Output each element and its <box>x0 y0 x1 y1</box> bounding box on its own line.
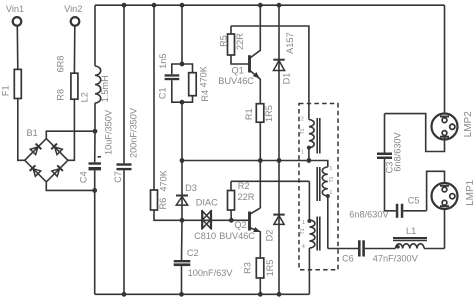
svg-text:R8: R8 <box>55 89 65 101</box>
diode D1 A157 <box>273 3 295 161</box>
svg-text:100nF/63V: 100nF/63V <box>188 268 234 278</box>
svg-text:D1: D1 <box>281 73 291 85</box>
svg-text:6n8/630V: 6n8/630V <box>393 131 403 171</box>
inductor L2 1.5mH <box>80 5 110 131</box>
svg-text:1.5mH: 1.5mH <box>100 75 110 102</box>
svg-text:T1: T1 <box>300 228 306 234</box>
svg-text:1: 1 <box>330 190 333 196</box>
svg-text:C5: C5 <box>408 195 420 205</box>
wire rail to LMP2 <box>444 5 446 116</box>
wire R8 to bridge right (crosses DC+ wire) <box>68 99 75 160</box>
svg-text:1: 1 <box>302 220 305 226</box>
resistor R2 22R <box>228 181 255 220</box>
svg-text:L1: L1 <box>406 226 416 236</box>
resistor R1 1R5 <box>244 104 274 161</box>
svg-text:R1: R1 <box>244 108 254 120</box>
svg-text:LMP1: LMP1 <box>465 179 474 206</box>
lamp LMP2 <box>432 111 474 140</box>
svg-text:6n8/630V: 6n8/630V <box>349 210 389 220</box>
svg-text:B1: B1 <box>27 128 38 138</box>
capacitor C1 1n5 <box>157 54 182 103</box>
svg-text:R6: R6 <box>158 198 168 210</box>
svg-text:BUV46C: BUV46C <box>219 231 255 241</box>
svg-text:1n5: 1n5 <box>158 54 168 69</box>
svg-text:22R: 22R <box>235 33 245 50</box>
svg-text:1R5: 1R5 <box>264 105 274 122</box>
fuse F1 <box>1 69 22 98</box>
capacitor C7 200nF/350V <box>113 3 139 297</box>
node D3/C2/DIAC junction <box>180 218 185 223</box>
resistor R5 22R <box>218 26 245 55</box>
wire Vin2 to R8 <box>73 26 75 73</box>
diac C810 <box>194 198 218 242</box>
wire C5 to LMP1 top <box>427 171 445 211</box>
transistor Q1 BUV46C <box>218 5 261 104</box>
transformer T1 winding 2 (middle) <box>309 161 335 249</box>
node L2/C4 junction <box>93 129 98 134</box>
node Q1 collector at rail <box>258 3 263 8</box>
capacitor C6 47nF/300V <box>328 240 419 263</box>
wire R5 top to T1 winding 1 <box>231 26 309 120</box>
node R2/DIAC/Q2 <box>229 218 234 223</box>
lamp LMP1 <box>432 179 474 209</box>
diode D3 <box>176 161 197 221</box>
node D1 bottom <box>277 158 282 163</box>
svg-text:LMP2: LMP2 <box>463 111 474 138</box>
transformer T1 core bars <box>317 118 320 251</box>
resistor R3 1R5 <box>242 258 275 297</box>
transformer T1 winding 1 (top) <box>300 117 314 161</box>
wire bottom rail <box>95 293 310 295</box>
svg-text:C6: C6 <box>342 253 354 263</box>
node C1/R4 bottom <box>180 100 185 105</box>
terminal Vin1 <box>6 4 24 26</box>
svg-text:R5: R5 <box>218 35 228 47</box>
wire rail to R6 <box>152 3 157 190</box>
diode D2 <box>264 161 284 297</box>
svg-text:T1: T1 <box>300 128 306 134</box>
svg-text:BUV46C: BUV46C <box>218 76 254 86</box>
svg-text:22R: 22R <box>238 192 255 202</box>
svg-text:Q1: Q1 <box>232 66 244 76</box>
resistor R6 470K <box>151 169 169 210</box>
svg-text:6R8: 6R8 <box>55 56 65 73</box>
capacitor C5 6n8/630V <box>349 195 426 219</box>
inductor L1 <box>393 226 445 249</box>
svg-text:2: 2 <box>301 117 304 123</box>
svg-text:R4: R4 <box>200 90 210 102</box>
wire LMP2 bottom jog <box>385 114 445 152</box>
resistor R4 470K <box>182 64 210 102</box>
wire C1/R4 to D3 node <box>181 102 183 160</box>
node T1 junction <box>307 158 312 163</box>
wire R5 bottom to Q1 base <box>231 55 248 64</box>
svg-text:1: 1 <box>330 166 333 172</box>
wire R2 top to T1 winding 3 <box>231 180 309 182</box>
wire bridge minus to C4 node <box>46 182 94 191</box>
wire R1 node down to Q2 collector <box>259 161 261 209</box>
node D3 top <box>180 158 185 163</box>
svg-text:L2: L2 <box>80 92 90 102</box>
node R1 bottom <box>258 158 263 163</box>
wire rail to C1/R4 <box>180 3 185 67</box>
svg-text:C2: C2 <box>187 248 199 258</box>
svg-text:Vin1: Vin1 <box>6 4 24 14</box>
svg-text:C810: C810 <box>194 231 216 241</box>
svg-text:1R5: 1R5 <box>265 260 275 277</box>
transformer T1 dashed box <box>299 104 338 270</box>
svg-text:Vin2: Vin2 <box>64 4 82 14</box>
node C4 bottom junction <box>92 188 97 193</box>
svg-text:D2: D2 <box>264 230 274 242</box>
wire C4 node to bottom rail <box>94 190 96 294</box>
svg-text:F1: F1 <box>1 85 11 96</box>
svg-text:470K: 470K <box>159 169 169 191</box>
wire DIAC to Q2 base <box>211 219 248 221</box>
svg-text:T1: T1 <box>329 176 335 182</box>
svg-text:Q2: Q2 <box>234 220 246 230</box>
svg-text:DIAC: DIAC <box>196 198 218 208</box>
svg-text:D3: D3 <box>185 183 197 193</box>
svg-text:47nF/300V: 47nF/300V <box>373 253 419 263</box>
terminal Vin2 <box>64 4 82 26</box>
svg-text:4: 4 <box>302 244 305 250</box>
svg-text:A157: A157 <box>285 32 295 53</box>
svg-text:C1: C1 <box>157 87 167 99</box>
svg-text:R3: R3 <box>242 262 252 274</box>
wire L1 to LMP1 bottom <box>444 207 446 249</box>
wire R6 to DIAC node <box>154 210 211 220</box>
svg-text:200nF/350V: 200nF/350V <box>129 107 139 158</box>
wire Vin1 to F1 <box>16 26 19 70</box>
wire top rail <box>95 4 445 6</box>
capacitor C4 10uF/350V <box>79 109 114 190</box>
svg-text:10uF/350V: 10uF/350V <box>104 109 114 155</box>
svg-text:C4: C4 <box>79 171 89 183</box>
svg-text:C7: C7 <box>113 171 123 183</box>
bridge rectifier B1 <box>25 128 68 182</box>
wire F1 to bridge left <box>18 99 25 161</box>
capacitor C2 100nF/63V <box>174 220 234 296</box>
wire bridge plus to L2 node <box>46 131 95 138</box>
svg-text:470K: 470K <box>199 65 209 87</box>
wire base node horizontal <box>182 160 309 162</box>
svg-text:1: 1 <box>301 150 304 156</box>
transformer T1 winding 3 (bottom) <box>300 181 315 294</box>
capacitor C3 6n8/630V <box>377 114 403 211</box>
transistor Q2 BUV46C <box>219 208 261 258</box>
svg-text:R2: R2 <box>238 181 250 191</box>
resistor R8 6R8 <box>55 56 78 101</box>
